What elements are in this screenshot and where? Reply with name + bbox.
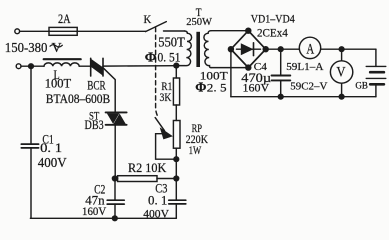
wire diac to R2 node — [114, 126, 116, 179]
resistor R2 — [115, 178, 118, 180]
wire fuse to switch K — [77, 30, 146, 32]
wire secondary top to bridge — [211, 30, 248, 32]
wire bridge plus to ammeter — [266, 48, 300, 50]
input terminal bottom — [16, 64, 21, 69]
svg-text:GB: GB — [355, 81, 368, 91]
RP mechanical dashed link from K — [156, 28, 159, 118]
wire top rail to fuse — [20, 30, 49, 32]
input terminal top — [15, 29, 20, 34]
svg-text:Φ: Φ — [145, 51, 157, 66]
svg-text:2. 5: 2. 5 — [207, 81, 227, 94]
potentiometer RP body — [173, 121, 180, 149]
diac ST DB3 — [106, 112, 127, 124]
svg-text:A: A — [306, 40, 314, 57]
RP wiper wire — [156, 134, 177, 160]
svg-text:160V: 160V — [82, 206, 106, 218]
ammeter A — [299, 37, 320, 58]
bridge vertex nodes — [245, 28, 251, 34]
node RP bottom junction — [173, 156, 179, 162]
svg-text:DB3: DB3 — [85, 119, 104, 132]
wire battery bottom — [375, 84, 377, 96]
wire battery top — [375, 49, 377, 66]
wire voltmeter to bottom rail — [341, 83, 343, 97]
bottom rail — [31, 217, 177, 219]
wire secondary bottom to bridge — [211, 67, 248, 69]
svg-text:59L1–A: 59L1–A — [286, 61, 323, 73]
svg-text:1W: 1W — [189, 145, 202, 158]
wire C4 top — [280, 49, 282, 75]
node C4 bottom — [278, 94, 284, 100]
wire node to C3 — [175, 179, 177, 201]
triac BCR right bar — [102, 58, 104, 76]
voltmeter V — [330, 61, 352, 83]
RP wiper arrow — [155, 118, 164, 131]
svg-text:R2 10K: R2 10K — [128, 161, 166, 175]
battery GB plates — [366, 65, 386, 67]
node R2 right junction — [173, 175, 179, 181]
transformer T core — [196, 32, 200, 67]
bridge inner diode — [237, 48, 261, 50]
wire L to triac — [79, 65, 91, 67]
svg-text:V: V — [52, 41, 62, 56]
node bottom rail C2 — [112, 215, 118, 221]
svg-text:0. 51: 0. 51 — [158, 50, 181, 65]
transformer T secondary winding — [204, 31, 211, 68]
node C4 top — [278, 46, 284, 52]
inductor L core bar — [44, 58, 81, 60]
capacitor C2 — [107, 199, 124, 201]
svg-text:100T: 100T — [45, 77, 72, 91]
wire to voltmeter — [341, 49, 343, 61]
wire triac to node R1 — [103, 65, 176, 67]
wire ammeter to battery — [321, 48, 376, 50]
wire RP to node — [175, 148, 177, 159]
node voltmeter top — [339, 46, 345, 52]
svg-text:550T: 550T — [158, 34, 185, 50]
svg-text:59C2–V: 59C2–V — [290, 81, 327, 93]
wire bridge minus down — [230, 49, 232, 96]
svg-text:0. 1: 0. 1 — [40, 141, 62, 155]
wire R1 to RP — [175, 105, 177, 121]
svg-text:3K: 3K — [160, 91, 172, 104]
node voltmeter bottom — [339, 94, 345, 100]
capacitor C1 — [21, 143, 38, 145]
triac BCR triangles — [91, 59, 103, 76]
wire C1 to bottom rail — [29, 148, 32, 218]
fuse 2A — [49, 27, 77, 35]
triac gate wire — [104, 68, 116, 111]
svg-text:250W: 250W — [186, 16, 213, 28]
svg-text:2A: 2A — [58, 12, 71, 26]
svg-text:400V: 400V — [143, 206, 169, 220]
transformer T primary winding — [179, 31, 192, 66]
wire C4 bottom — [280, 80, 282, 96]
resistor R1 — [175, 66, 177, 78]
AC tilde over V of 150-380V — [50, 45, 62, 47]
wire to node C1 — [21, 65, 44, 67]
svg-text:150-380: 150-380 — [5, 40, 48, 56]
svg-text:160V: 160V — [243, 80, 270, 94]
switch K blade — [146, 22, 167, 32]
svg-text:V: V — [336, 65, 345, 81]
inductor L coil — [44, 63, 79, 66]
wire switch to transformer primary — [164, 30, 185, 32]
bridge rectifier VD1-VD4 diamond — [231, 31, 266, 68]
wire node to C2 — [114, 179, 116, 201]
bottom right rail — [231, 96, 376, 98]
wire node to R2 right — [175, 159, 177, 178]
node R1 top junction — [173, 63, 179, 69]
svg-text:K: K — [144, 14, 152, 26]
svg-text:2CEx4: 2CEx4 — [257, 27, 288, 39]
wire C2 to bottom rail — [114, 204, 116, 218]
svg-text:BTA08–600B: BTA08–600B — [46, 91, 110, 106]
svg-text:VD1–VD4: VD1–VD4 — [251, 13, 295, 26]
capacitor C4 — [272, 75, 291, 77]
triac BCR left bar — [90, 58, 92, 76]
capacitor C1 branch wire — [30, 66, 32, 144]
wire C3 to bottom rail — [175, 204, 177, 218]
node R2 left junction — [112, 175, 118, 181]
node C1 top junction — [28, 63, 34, 69]
svg-text:400V: 400V — [38, 155, 67, 170]
svg-text:Φ: Φ — [195, 80, 206, 95]
capacitor C3 — [169, 199, 186, 201]
